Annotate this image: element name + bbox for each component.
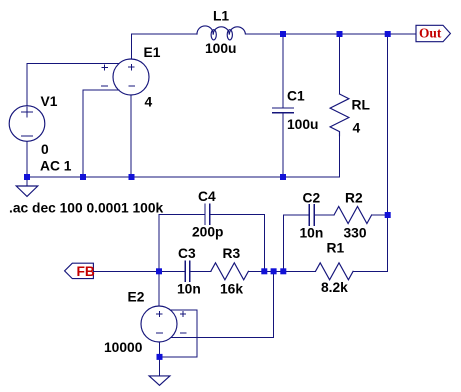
svg-text:C2: C2 [303,191,321,206]
node junction top right [385,31,391,37]
wire E1 minus control to ground rail [83,90,119,177]
wire right vertical from top rail to R1 row [387,34,389,271]
wire V1 top to E1 plus control [27,64,119,106]
capacitor C4 [205,204,210,224]
resistor RL [330,34,349,177]
node junction R2 right [385,212,391,218]
svg-text:100u: 100u [205,41,236,56]
wire E2 plus control to ground [160,310,198,357]
node junction gnd E1 out [129,174,135,180]
wire E1 bottom to ground rail [130,95,132,177]
capacitor C1 [273,34,293,177]
node junction gnd C1 [280,174,286,180]
wire E1 top vertical [131,34,133,59]
node junction gnd E1 ctrl [80,174,86,180]
svg-text:RL: RL [352,98,370,113]
svg-text:10n: 10n [300,226,324,241]
wire V1 bottom to ground rail [26,141,28,177]
wire C4 row left leg [159,214,205,271]
node junction X C4 [261,268,267,274]
VCVS E2 [141,306,186,342]
svg-text:E1: E1 [144,45,161,60]
svg-text:10000: 10000 [104,340,143,355]
wire top rail from L1 to Out flag [245,33,416,35]
wire E2 bottom to ground [159,342,161,357]
ground symbol at V1 [16,177,38,196]
svg-text:R3: R3 [223,246,241,261]
svg-text:330: 330 [344,226,367,241]
svg-text:16k: 16k [220,282,243,297]
svg-text:8.2k: 8.2k [321,280,348,295]
svg-text:R1: R1 [327,241,345,256]
resistor R2 [314,207,387,224]
svg-text:L1: L1 [213,9,229,24]
svg-text:4: 4 [353,121,361,136]
wire C4 row right leg [210,214,265,271]
svg-text:C4: C4 [198,189,216,204]
svg-text:4: 4 [145,95,153,110]
svg-text:V1: V1 [41,94,58,109]
inductor L1 [197,26,245,40]
svg-text:0: 0 [41,142,49,157]
wire E2 plus control stub [171,309,197,311]
voltage source V1 [9,106,45,142]
svg-text:FB: FB [77,264,95,279]
wire top rail from E1 corner to L1 [132,33,198,35]
svg-text:AC 1: AC 1 [40,159,72,174]
resistor R1 [316,263,388,280]
svg-text:100u: 100u [287,117,318,132]
wire E2 minus control to node X [172,271,274,337]
wire C2 row left leg [283,215,309,271]
ground symbol at E2 [149,357,170,385]
svg-text:10n: 10n [177,282,201,297]
op-amp-like VCVS E1 [102,59,149,95]
svg-text:R2: R2 [345,191,363,206]
wire FB row junction run [264,270,315,272]
capacitor C3 [159,261,190,281]
node junction X E2 [271,268,277,274]
FB flag [65,263,94,278]
svg-text:Out: Out [419,26,442,41]
svg-text:E2: E2 [128,290,145,305]
svg-text:200p: 200p [192,225,223,240]
node junction FB [156,268,162,274]
node junction E2 gnd [157,354,163,360]
capacitor C2 [309,205,314,225]
svg-text:C3: C3 [178,246,196,261]
svg-text:.ac dec 100 0.0001 100k: .ac dec 100 0.0001 100k [9,201,164,216]
ground rail wire [27,176,340,178]
node junction top RL [337,31,343,37]
node junction gnd V1 [24,174,30,180]
node junction top C1 [280,31,286,37]
out flag [416,25,450,41]
wire FB flag to node [94,270,159,272]
resistor R3 [190,263,264,280]
wire E2 output top to FB node [158,271,160,306]
svg-text:C1: C1 [287,89,305,104]
node junction X C2 [280,268,286,274]
